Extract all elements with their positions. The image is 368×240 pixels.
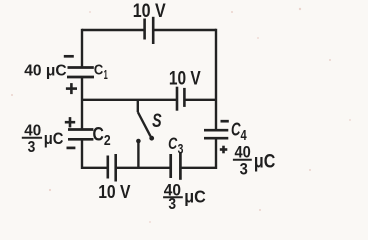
svg-text:2: 2 xyxy=(104,133,111,149)
svg-text:μC: μC xyxy=(44,129,64,148)
svg-text:C: C xyxy=(93,124,105,145)
svg-text:3: 3 xyxy=(240,160,248,179)
svg-text:10 V: 10 V xyxy=(98,182,130,202)
svg-text:10 V: 10 V xyxy=(133,1,166,22)
wire middle-right segment xyxy=(184,99,216,101)
switch S stub from middle wire xyxy=(137,100,139,112)
svg-text:3: 3 xyxy=(168,196,176,213)
fraction bar (C4 value) xyxy=(233,159,252,161)
svg-text:3: 3 xyxy=(178,141,184,157)
wire left upper (top corner to C1) xyxy=(81,29,83,68)
wire top-right segment xyxy=(153,29,216,31)
switch blade contact dot xyxy=(149,136,154,141)
switch S blade xyxy=(138,112,151,136)
wire right lower (C4 to bottom corner) xyxy=(215,138,217,169)
wire bottom-right segment xyxy=(181,167,216,169)
wire right upper (top corner to C4) xyxy=(215,29,217,130)
svg-text:3: 3 xyxy=(28,139,36,156)
plus sign above C2 xyxy=(65,117,75,127)
wire middle-left segment xyxy=(82,99,177,101)
minus sign below C2 xyxy=(67,147,76,150)
capacitor C2 xyxy=(68,130,93,140)
svg-text:40: 40 xyxy=(235,142,251,161)
plus sign below C1 xyxy=(66,83,77,94)
capacitor C3 xyxy=(171,152,181,180)
battery 10 V (bottom) xyxy=(108,154,116,182)
wire left middle (C1 to C2, middle-wire junction) xyxy=(81,77,83,130)
capacitor C1 xyxy=(67,68,94,78)
wire top-left segment xyxy=(82,29,145,31)
svg-text:1: 1 xyxy=(104,67,108,82)
svg-text:10 V: 10 V xyxy=(169,69,201,90)
fraction bar (C3 value) xyxy=(163,196,183,198)
svg-text:C: C xyxy=(168,134,178,153)
minus sign above C4 xyxy=(221,120,229,123)
wire switch branch down to bottom wire xyxy=(137,141,139,168)
svg-text:S: S xyxy=(152,111,162,132)
svg-text:C: C xyxy=(94,63,104,79)
minus sign above C1 xyxy=(64,55,74,58)
wire left lower (C2 to bottom corner) xyxy=(81,139,83,169)
wire bottom-left segment xyxy=(82,167,107,169)
plus sign below C4 xyxy=(220,146,228,154)
switch lower contact dot xyxy=(136,139,141,144)
svg-text:C: C xyxy=(231,119,241,140)
wire bottom-middle segment xyxy=(117,167,170,169)
svg-text:μC: μC xyxy=(184,186,206,206)
svg-text:μC: μC xyxy=(254,152,276,173)
battery 10 V (middle) xyxy=(177,87,184,111)
svg-text:40 μC: 40 μC xyxy=(24,63,67,80)
capacitor C4 xyxy=(204,130,228,138)
battery 10 V (top) xyxy=(145,17,154,44)
fraction bar (C2 value) xyxy=(22,137,42,139)
